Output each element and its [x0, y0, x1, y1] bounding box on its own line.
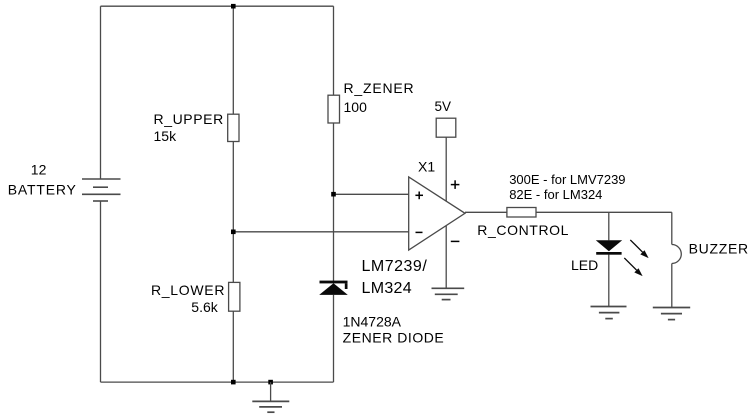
svg-text:82E - for LM324: 82E - for LM324: [509, 187, 602, 202]
svg-text:12: 12: [31, 162, 47, 178]
svg-text:LM324: LM324: [362, 280, 412, 297]
LED D2: [596, 240, 622, 254]
op-amp V+ pin sign: [451, 180, 460, 189]
svg-text:100: 100: [344, 99, 368, 115]
svg-text:BATTERY: BATTERY: [8, 182, 77, 198]
power port 5V box: [436, 118, 456, 137]
wire R_ZENER branch top: [333, 6, 335, 95]
op-amp V- pin sign: [451, 240, 460, 242]
svg-text:ZENER DIODE: ZENER DIODE: [343, 330, 445, 346]
wire battery left vertical bottom: [100, 201, 102, 382]
wire R_ZENER to zener diode: [333, 123, 335, 281]
wire LED branch: [608, 212, 610, 240]
ground op-amp: [432, 288, 465, 299]
wire top rail: [101, 5, 334, 7]
svg-text:300E - for LMV7239: 300E - for LMV7239: [509, 172, 625, 187]
op-amp plus input sign: [415, 192, 423, 200]
svg-text:R_LOWER: R_LOWER: [151, 282, 225, 298]
resistor R_UPPER 15k: [228, 114, 239, 141]
wire buzzer top: [671, 212, 673, 244]
wire zener to bottom rail: [333, 295, 335, 382]
wire R_UPPER branch top: [232, 6, 234, 114]
junction R_LOWER bottom: [231, 380, 236, 385]
wire plus input: [334, 193, 409, 195]
svg-text:X1: X1: [418, 158, 435, 174]
ground buzzer: [653, 308, 690, 320]
ground bottom center: [252, 382, 289, 412]
svg-text:R_ZENER: R_ZENER: [344, 80, 415, 96]
wire bottom rail: [101, 381, 334, 383]
resistor R_ZENER 100: [328, 95, 340, 123]
wire minus input: [233, 231, 408, 233]
wire R_LOWER bottom: [232, 311, 234, 382]
junction ground stub: [268, 380, 273, 385]
svg-text:1N4728A: 1N4728A: [343, 313, 402, 329]
svg-text:5V: 5V: [435, 99, 452, 114]
LED arrow 1: [630, 240, 648, 258]
wire battery left vertical top: [100, 6, 102, 179]
op-amp U1 X1 triangle: [409, 177, 465, 250]
buzzer LS1 bump: [672, 245, 682, 264]
junction top rail: [231, 4, 236, 9]
svg-text:15k: 15k: [154, 128, 178, 144]
junction zener node: [331, 192, 336, 197]
svg-text:R_UPPER: R_UPPER: [154, 111, 224, 127]
LED arrow 2: [624, 258, 642, 276]
resistor R_CONTROL: [507, 208, 536, 218]
svg-text:5.6k: 5.6k: [191, 299, 218, 315]
wire R_UPPER to R_LOWER: [232, 142, 234, 283]
ground LED: [591, 307, 627, 319]
wire buzzer bottom: [671, 264, 673, 308]
resistor R_LOWER 5.6k: [229, 282, 240, 311]
wire LED to ground: [608, 255, 610, 307]
zener diode D1 1N4728A: [319, 281, 348, 295]
battery BT1 12 BATTERY: [82, 179, 121, 201]
wire op-amp V- to ground: [445, 226, 447, 288]
wire R_CONTROL to buzzer corner: [536, 211, 672, 213]
svg-text:LM7239/: LM7239/: [362, 258, 428, 275]
svg-text:LED: LED: [571, 257, 598, 273]
svg-text:BUZZER: BUZZER: [689, 241, 749, 257]
wire 5V to op-amp: [445, 137, 447, 201]
junction divider node: [231, 230, 236, 235]
op-amp minus input sign: [416, 231, 423, 233]
svg-text:R_CONTROL: R_CONTROL: [477, 222, 569, 238]
wire op-amp output: [465, 211, 507, 213]
